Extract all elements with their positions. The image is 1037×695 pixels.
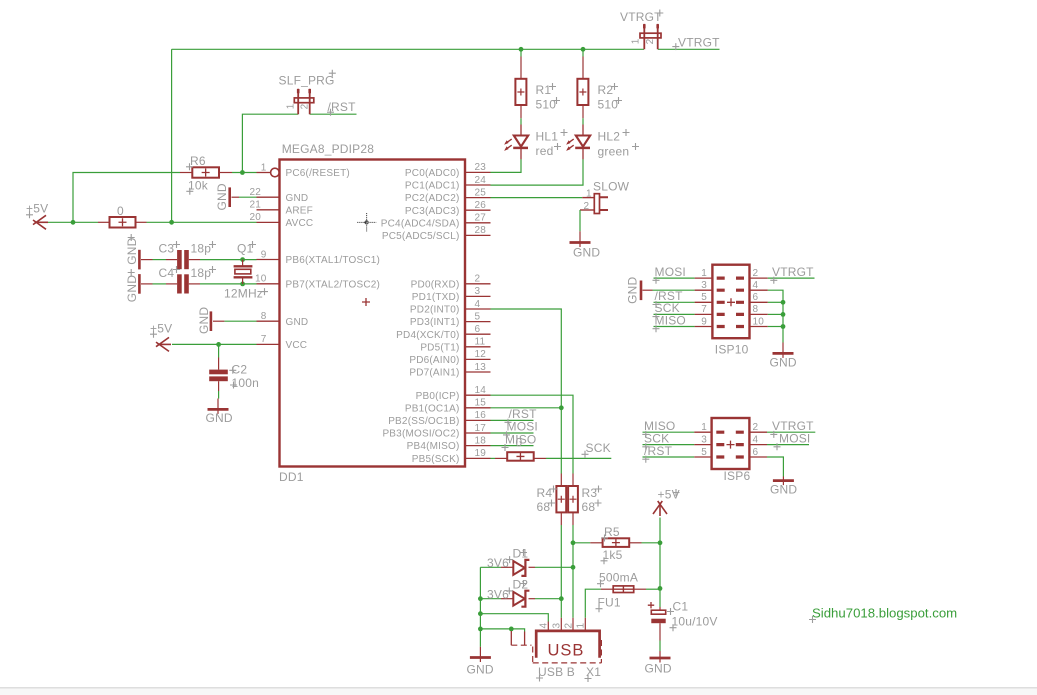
svg-text:0: 0 [117,204,124,218]
capacitor C3 18p [153,259,167,261]
IC pin 15 PB1(OC1A) right [465,407,491,409]
ground below SLOW [579,231,581,247]
wire pin18 MISO net [491,445,534,447]
svg-text:C2: C2 [232,363,248,377]
svg-text:PC5(ADC5/SCL): PC5(ADC5/SCL) [382,231,460,242]
svg-text:MEGA8_PDIP28: MEGA8_PDIP28 [282,142,375,156]
node junction VCC/C2 [216,342,221,347]
IC pin 23 PC0(ADC0) right [465,171,491,173]
svg-text:19: 19 [475,448,487,459]
svg-text:VTRGT: VTRGT [772,265,814,279]
svg-text:R1: R1 [536,83,552,97]
svg-text:12MHz: 12MHz [224,287,263,301]
node junction D1 tee [571,565,576,570]
IC pin 20 AVCC left [257,221,280,223]
wire FU1 to USB pin1 [585,589,601,618]
svg-text:GND: GND [206,411,233,425]
svg-text:ISP10: ISP10 [715,343,749,357]
svg-text:18p: 18p [191,266,212,280]
svg-text:2: 2 [753,422,759,433]
wire left ground bus vertical [479,567,481,647]
svg-text:7: 7 [701,304,707,315]
diode D2 zener 3V6 [480,598,501,600]
node junction R1 top [519,47,524,52]
svg-text:6: 6 [753,447,759,458]
node junction crystal bottom [240,282,245,287]
IC pin 3 PD1(TXD) right [465,295,491,297]
svg-text:23: 23 [475,162,487,173]
svg-text:2: 2 [753,268,759,279]
ISP6 contact row 2 [716,443,744,446]
svg-text:68: 68 [582,500,596,514]
svg-text:PC3(ADC3): PC3(ADC3) [405,206,460,217]
IC pin 2 PD0(RXD) right [465,283,491,285]
IC pin 5 PD3(INT1) right [465,321,491,323]
wire SLF_PRG vertical to pin1 junction [242,114,298,172]
jumper SLOW [491,197,583,199]
IC pin 18 PB4(MISO) right [465,445,491,447]
svg-text:24: 24 [475,175,487,186]
svg-text:510: 510 [536,98,557,112]
IC pin 24 PC1(ADC1) right [465,184,491,186]
svg-text:FU1: FU1 [598,596,621,610]
svg-text:PD3(INT1): PD3(INT1) [410,317,460,328]
resistor R1 510 [520,49,522,56]
svg-text:PB4(MISO): PB4(MISO) [407,441,460,452]
svg-text:GND: GND [286,193,309,204]
svg-text:PB7(XTAL2/TOSC2): PB7(XTAL2/TOSC2) [286,279,381,290]
ground at ISP10 [782,343,784,358]
svg-text:3: 3 [552,623,563,629]
svg-text:GND: GND [197,307,211,334]
IC pin 1 PC6(/RESET) left [257,172,271,174]
svg-text:PD2(INT0): PD2(INT0) [410,305,460,316]
node junction crystal top [240,257,245,262]
IC origin cross [362,298,370,306]
IC pin 6 PD4(XCK/T0) right [465,333,491,335]
svg-text:PD6(AIN0): PD6(AIN0) [409,355,459,366]
LED HL1 red [520,125,522,136]
svg-text:500mA: 500mA [599,571,638,585]
jumper VTRGT top [640,24,661,49]
ground at ISP10 pin3 [653,289,695,291]
wire ISP10 pin6 stub [768,301,783,303]
IC pin 21 AREF left [257,209,280,211]
svg-text:PC1(ADC1): PC1(ADC1) [405,181,460,192]
svg-text:21: 21 [249,200,261,211]
svg-text:ISP6: ISP6 [724,469,751,483]
LED HL2 green [582,125,584,136]
node junction FU1 right [658,586,663,591]
wire HL2 cathode to pin24 [491,159,584,185]
resistor R4 68 [560,474,562,487]
svg-text:5: 5 [475,311,481,322]
connector X1 USB B [536,631,599,658]
ISP10 contact row 2 [717,289,744,292]
node junction pin15 tee [559,405,564,410]
IC pin 25 PC2(ADC2) right [465,197,491,199]
svg-text:10k: 10k [188,179,209,193]
IC pin 22 GND left [257,196,280,198]
wire SLF_PRG pin2 to /RST label [310,113,357,115]
wire ISP10 pin4-6-8-10 bus to ground [768,290,783,342]
wire ISP10 pin10 stub [768,326,783,328]
IC pin 7 VCC left [257,343,280,345]
wire ISP6 pin1 MISO [643,431,695,433]
wire ISP10 pin2 VTRGT [768,277,815,279]
IC pin 28 PC5(ADC5/SCL) right [465,234,491,236]
wire to USB pin4 [480,614,548,622]
svg-text:GND: GND [215,183,229,210]
svg-text:8: 8 [261,311,267,322]
ground below C1 [659,651,661,663]
svg-text:1: 1 [576,623,587,629]
wire R4 line down to USB pin3 [560,525,562,618]
svg-text:VCC: VCC [286,340,308,351]
IC pin 9 PB6(XTAL1/TOSC1) left [257,259,280,261]
svg-text:2: 2 [299,103,310,109]
svg-text:PB5(SCK): PB5(SCK) [412,454,460,465]
svg-text:PD4(XCK/T0): PD4(XCK/T0) [396,330,459,341]
svg-text:GND: GND [467,663,494,677]
wire HL1 cathode to pin23 [491,159,522,172]
IC pin 4 PD2(INT0) right [465,308,491,310]
svg-text:R6: R6 [190,154,206,168]
svg-text:14: 14 [475,385,487,396]
svg-text:R5: R5 [604,525,620,539]
wire ISP10 pin9 MISO [654,326,695,328]
svg-text:GND: GND [770,483,797,497]
svg-text:PD7(AIN1): PD7(AIN1) [409,368,459,379]
svg-text:13: 13 [475,362,487,373]
connector ISP10 body [712,265,749,339]
svg-text:28: 28 [475,225,487,236]
IC pin 27 PC4(ADC4/SDA) right [465,222,491,224]
svg-text:HL1: HL1 [536,130,559,144]
ground at pin22 [239,196,257,198]
bottom divider line [0,687,1037,689]
wire ISP6 pin4 MOSI [767,444,809,446]
svg-text:1: 1 [586,188,592,199]
ISP10 contact row 1 [717,277,744,280]
wire pin4 PD2 down R4 line [491,309,562,474]
svg-text:10: 10 [753,316,765,327]
resistor R2 510 [582,49,584,56]
svg-text:PD0(RXD): PD0(RXD) [411,279,460,290]
wire junction up and right to R6 [73,173,180,223]
svg-text:100n: 100n [232,376,260,390]
svg-text:9: 9 [261,249,267,260]
wire vertical +5V rail drop to AVCC row [171,49,173,222]
svg-text:USB B: USB B [538,665,575,679]
svg-text:7: 7 [261,334,267,345]
fuse FU1 500mA [613,586,634,593]
svg-text:SCK: SCK [586,441,611,455]
svg-text:11: 11 [475,337,486,348]
svg-text:8: 8 [753,304,759,315]
ground at C3 [138,250,141,270]
svg-text:16: 16 [475,410,487,421]
USB shield pins S1 S2 [511,631,524,645]
svg-text:R4: R4 [537,486,553,500]
svg-text:GND: GND [625,277,639,304]
wire ISP6 pin2 VTRGT [767,431,815,433]
svg-text:27: 27 [475,213,487,224]
ISP10 contact row 5 [717,325,744,328]
wire shield net [480,629,524,632]
svg-text:3: 3 [701,280,707,291]
ground at left bus [479,647,481,662]
node junction R2 top [581,47,586,52]
svg-text:26: 26 [475,200,487,211]
IC pin 13 PD7(AIN1) right [465,371,491,373]
+5V symbol left [33,215,48,229]
svg-text:3V6: 3V6 [487,587,509,601]
IC pin 12 PD6(AIN0) right [465,358,491,360]
svg-text:12: 12 [475,349,487,360]
crystal Q1 12MHz [242,260,244,267]
wire pin15 to R4 line [491,407,562,409]
wire AVCC row through 0-ohm to pin20 [73,221,257,223]
ground below C2 [217,399,219,414]
svg-text:C3: C3 [159,241,175,255]
svg-text:1: 1 [701,422,707,433]
svg-text:R3: R3 [582,486,598,500]
svg-text:Q1: Q1 [237,241,254,255]
wire +5V arrow to junction [44,221,73,223]
resistor R5 1k5 [573,542,590,544]
jumper SLF_PRG [294,89,314,115]
ground at ISP6 [782,477,784,486]
svg-text:2: 2 [645,38,656,44]
svg-text:Sidhu7018.blogspot.com: Sidhu7018.blogspot.com [812,606,957,621]
wire ISP6 pin5 /RST [643,456,695,458]
svg-text:PB0(ICP): PB0(ICP) [416,391,460,402]
svg-text:GND: GND [573,246,600,260]
wire pin17 MOSI net [491,432,534,434]
svg-text:HL2: HL2 [598,130,621,144]
svg-text:4: 4 [753,280,759,291]
svg-text:1: 1 [286,103,297,109]
svg-text:1: 1 [701,268,707,279]
connector ISP6 body [712,418,750,469]
+5V at VCC pin7 [156,337,171,351]
wire ISP6 pin6 to ground [767,457,783,477]
wire pin14 to R3 [491,395,574,473]
svg-text:DD1: DD1 [279,470,304,484]
svg-text:6: 6 [475,324,481,335]
svg-text:3V6: 3V6 [487,556,509,570]
IC pin 10 PB7(XTAL2/TOSC2) left [257,283,280,285]
svg-text:18: 18 [475,435,487,446]
svg-text:10u/10V: 10u/10V [672,615,718,629]
capacitor C2 100n [218,344,220,357]
wire ISP6 pin3 SCK [643,444,695,446]
resistor 0 at pin19 SCK [491,457,496,459]
svg-text:17: 17 [475,423,487,434]
svg-text:4: 4 [539,623,550,629]
node junction R5 tee on R3 line [571,540,576,545]
svg-text:PC4(ADC4/SDA): PC4(ADC4/SDA) [381,218,460,229]
IC pin 16 PB2(SS/OC1B) right [465,419,491,421]
node junction pin1 net [240,170,245,175]
ISP10 contact row 4 [717,313,744,316]
svg-text:18p: 18p [191,241,212,255]
svg-text:MISO: MISO [655,313,686,327]
node junction R5 right [658,540,663,545]
svg-text:20: 20 [249,212,261,223]
svg-text:MOSI: MOSI [779,431,810,445]
diode D1 zener 3V6 [480,566,501,568]
svg-text:5: 5 [701,447,707,458]
ISP6 contact row 3 [716,455,744,458]
svg-text:9: 9 [701,316,707,327]
svg-text:15: 15 [475,398,487,409]
wire ISP10 pin7 SCK [654,313,695,315]
node junction AVCC rail [169,220,174,225]
svg-text:PC6(/RESET): PC6(/RESET) [286,168,350,179]
svg-text:2: 2 [584,201,590,212]
svg-text:GND: GND [286,317,309,328]
svg-text:GND: GND [645,662,672,676]
svg-text:red: red [536,144,554,158]
wire +5V down to C1 [659,518,661,608]
svg-text:/RST: /RST [644,444,673,458]
wire ISP10 pin1 MOSI [654,277,695,279]
svg-text:PB1(OC1A): PB1(OC1A) [405,403,460,414]
svg-text:PC0(ADC0): PC0(ADC0) [405,168,460,179]
IC pin 26 PC3(ADC3) right [465,209,491,211]
ISP10 contact row 3 [717,301,744,304]
svg-text:SLF_PRG: SLF_PRG [279,74,335,88]
svg-text:PB6(XTAL1/TOSC1): PB6(XTAL1/TOSC1) [286,255,381,266]
svg-text:68: 68 [537,500,551,514]
svg-text:PD1(TXD): PD1(TXD) [412,292,460,303]
svg-text:PB3(MOSI/OC2): PB3(MOSI/OC2) [382,429,459,440]
capacitor C1 10u/10V [659,607,661,610]
IC pin 19 PB5(SCK) right [465,457,491,459]
wire ISP10 pin5 /RST [654,301,695,303]
svg-text:AVCC: AVCC [286,218,314,229]
svg-text:GND: GND [770,355,797,369]
IC pin 14 PB0(ICP) right [465,394,491,396]
wire top rail right of jumper VTRGT [658,48,720,50]
+5V above R5 [653,501,667,516]
svg-text:green: green [598,145,630,159]
svg-text:D1: D1 [513,547,529,561]
IC pin 8 GND left [257,320,280,322]
svg-text:SLOW: SLOW [593,180,630,194]
svg-text:0: 0 [516,436,523,450]
svg-text:3: 3 [701,434,707,445]
svg-text:VTRGT: VTRGT [678,36,720,50]
svg-text:4: 4 [753,434,759,445]
resistor R3 68 [572,474,574,487]
svg-text:10: 10 [255,274,267,285]
svg-text:2: 2 [475,274,481,285]
wire SLOW pin2 to ground [579,210,581,231]
svg-text:PD5(T1): PD5(T1) [420,342,459,353]
wire pin16 /RST net [491,419,534,421]
svg-text:R2: R2 [598,83,614,97]
svg-text:MOSI: MOSI [655,265,686,279]
node junction D2 tee [559,596,564,601]
svg-text:1k5: 1k5 [603,548,623,562]
svg-text:22: 22 [249,187,261,198]
svg-text:1: 1 [631,38,642,44]
svg-text:510: 510 [598,98,619,112]
ISP6 contact row 1 [716,431,744,434]
svg-text:1: 1 [261,162,267,173]
svg-text:USB: USB [548,642,585,660]
svg-text:GND: GND [125,275,139,302]
svg-text:6: 6 [753,292,759,303]
capacitor C4 18p [153,283,167,285]
svg-text:D2: D2 [513,578,529,592]
svg-text:GND: GND [125,237,139,264]
svg-text:C1: C1 [673,600,689,614]
svg-text:AREF: AREF [286,205,313,216]
svg-text:25: 25 [475,187,487,198]
svg-text:VTRGT: VTRGT [620,10,662,24]
svg-text:4: 4 [475,299,481,310]
IC pin 11 PD5(T1) right [465,346,491,348]
ground at C4 [138,274,141,294]
svg-text:C4: C4 [159,266,175,280]
IC pin 17 PB3(MOSI/OC2) right [465,432,491,434]
svg-text:PB2(SS/OC1B): PB2(SS/OC1B) [388,416,459,427]
IC DD1 MEGA8_PDIP28 body [280,160,466,467]
wire ISP10 pin8 stub [768,313,783,315]
svg-text:PC2(ADC2): PC2(ADC2) [405,193,460,204]
svg-text:3: 3 [475,286,481,297]
resistor 0 ohm [98,221,110,223]
svg-text:2: 2 [563,623,574,629]
node junction shield [509,627,514,632]
ground at pin8 [224,320,256,322]
cursor crosshair [357,213,376,232]
wire R3 line down to USB pin2 [572,525,574,618]
node junction +5V left [71,220,76,225]
wire top +5V rail [172,48,644,50]
svg-text:5: 5 [701,292,707,303]
resistor R6 [180,172,192,174]
